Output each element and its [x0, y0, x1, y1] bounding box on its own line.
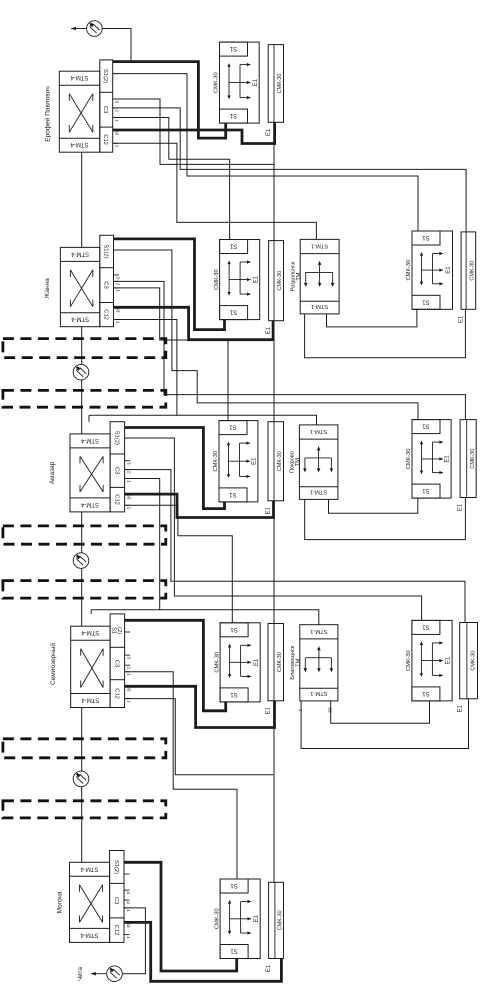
stream arrows [420, 642, 422, 676]
stream arrows [229, 901, 231, 934]
svg-text:S1: S1 [229, 243, 237, 249]
svg-text:S1(2): S1(2) [102, 69, 108, 83]
thick cable B row3 [125, 494, 274, 517]
stream arrows [421, 253, 423, 284]
svg-text:СМК-30: СМК-30 [277, 271, 283, 291]
wire S1(2)p2 row2 to right CMK-30 row3 [114, 250, 419, 420]
wire S1(2) row4 top stub [90, 610, 92, 614]
Ерофей Павлович port column S1(2)/C3/C12 [100, 60, 113, 152]
svg-text:E1: E1 [266, 706, 272, 714]
svg-text:1: 1 [126, 909, 131, 912]
svg-text:E1: E1 [254, 914, 260, 922]
svg-text:СМК-30: СМК-30 [406, 260, 412, 281]
wire TM row2 port63 to right CMK-30 bottom [327, 309, 417, 327]
wire chain row1 to row2 [81, 152, 83, 247]
svg-text:СМК-30: СМК-30 [214, 72, 220, 93]
cable bar CMK-30 row1 [268, 45, 283, 123]
port S1 bottom [412, 687, 440, 701]
svg-text:E1: E1 [457, 704, 463, 712]
port S1 top [219, 421, 247, 435]
svg-text:STM-4: STM-4 [80, 437, 99, 443]
svg-text:E1: E1 [266, 128, 272, 136]
Амазар STM-4 bottom strip [70, 497, 110, 499]
wire C3p2 row3 to right bar row4 [125, 470, 465, 623]
station Жанна multiplexer box [60, 247, 99, 326]
svg-text:E1: E1 [459, 315, 465, 323]
dashed section box 3b [3, 801, 166, 818]
thick cable B row1: C12 port63 to bar [113, 122, 275, 143]
station Ерофей Павлович multiplexer box [59, 71, 100, 152]
port S1 top [220, 42, 248, 56]
svg-text:E1: E1 [266, 506, 272, 514]
wire bar chain row2 to row3 [273, 340, 275, 422]
svg-text:1: 1 [126, 936, 131, 939]
Амазар STM-4 top strip [70, 447, 110, 449]
wire bar chain row1 to row2 [273, 144, 275, 241]
row4 port ticks [125, 619, 131, 621]
svg-text:S1: S1 [230, 691, 238, 697]
svg-text:E1: E1 [266, 964, 272, 972]
svg-text:ТМ: ТМ [296, 272, 302, 280]
TM arrows [305, 657, 331, 659]
svg-text:3: 3 [126, 891, 131, 894]
CMK-30 unit U1 row1 [220, 42, 260, 123]
wire C3p2 row2 to right bar row3 [114, 281, 466, 419]
svg-text:S1: S1 [230, 882, 238, 888]
Могоча cross-connect X symbol [80, 885, 103, 923]
svg-text:S1(2): S1(2) [113, 431, 119, 445]
port S1 top [412, 420, 440, 434]
svg-text:S1: S1 [229, 45, 237, 51]
svg-text:2: 2 [115, 109, 120, 112]
wire S1(2)p2 row1 to right CMK-30 row2 [113, 74, 418, 231]
svg-text:1: 1 [115, 321, 120, 324]
port S1 top [220, 879, 248, 893]
svg-text:1: 1 [127, 700, 132, 703]
svg-text:Могоча: Могоча [57, 891, 64, 913]
right cable bar row3 [460, 420, 476, 498]
svg-text:STM-4: STM-4 [80, 931, 99, 937]
Ерофей Павлович cross-connect X symbol [69, 94, 93, 133]
svg-text:S1: S1 [422, 690, 430, 696]
thick cable A row4 [125, 620, 226, 711]
right cable bar row2 [461, 232, 476, 309]
wire S1(2) row3 top stub [88, 415, 90, 422]
svg-text:1: 1 [115, 289, 120, 292]
cable bar CMK-30 row2 [269, 241, 284, 321]
wire C12p1 row3 to CMK-30 top S1 row4 [125, 505, 233, 623]
TM arrows [306, 271, 333, 273]
dashed section box 1a [3, 339, 166, 358]
svg-text:Семиозерный: Семиозерный [49, 643, 57, 685]
svg-text:S1: S1 [230, 626, 238, 632]
thick cable B row5 [124, 922, 281, 981]
svg-text:СМК-30: СМК-30 [213, 451, 219, 472]
thick cable A row3 [125, 428, 225, 509]
Семиозерный cross-connect X symbol [81, 649, 103, 688]
svg-text:C3: C3 [102, 106, 108, 113]
TM block row4 [300, 625, 338, 701]
svg-text:S1(2): S1(2) [113, 860, 119, 874]
svg-text:S1: S1 [422, 234, 430, 240]
svg-text:STM-4: STM-4 [80, 501, 99, 507]
Амазар port column S1(2)/C3/C12 [110, 422, 125, 512]
svg-text:Чита: Чита [77, 967, 84, 981]
right cable bar row4 [460, 623, 478, 699]
Семиозерный STM-4 bottom strip [71, 693, 110, 695]
svg-text:E1: E1 [266, 326, 272, 334]
stream arrows [421, 442, 423, 474]
svg-text:STM-1: STM-1 [310, 690, 327, 696]
svg-text:S1: S1 [229, 309, 237, 315]
svg-text:ТМ: ТМ [295, 458, 301, 466]
thick cable B row2 [114, 307, 274, 339]
Могоча STM-4 bottom strip [70, 927, 110, 929]
svg-text:(2): (2) [116, 627, 122, 634]
Ерофей Павлович STM-4 bottom strip [59, 137, 100, 139]
svg-text:S1: S1 [229, 112, 237, 118]
svg-text:S1(2): S1(2) [103, 244, 109, 258]
port S1 bottom [220, 109, 248, 123]
station Амазар multiplexer box [70, 434, 110, 512]
right CMK-30 unit row2 [412, 231, 453, 309]
svg-text:S1: S1 [230, 948, 238, 954]
thick cable A row2 [114, 239, 225, 330]
stream arrows [229, 645, 231, 677]
TM arrows [305, 457, 332, 459]
svg-text:2: 2 [127, 667, 132, 670]
svg-text:2: 2 [127, 471, 132, 474]
svg-text:C12: C12 [102, 134, 108, 145]
wire TM row4 port63 to right CMK-30 bottom [331, 701, 430, 723]
svg-text:1: 1 [115, 119, 120, 122]
svg-text:C3: C3 [113, 467, 119, 474]
svg-text:1: 1 [127, 480, 132, 483]
row3 port ticks [125, 427, 131, 429]
port S1 bottom [220, 945, 248, 959]
svg-text:СМК-30: СМК-30 [214, 908, 220, 929]
dashed section box 3a [3, 739, 166, 758]
svg-text:C12: C12 [113, 925, 119, 936]
wire TM row2 port1 to right bar bottom [305, 309, 466, 357]
svg-text:STM-4: STM-4 [70, 141, 89, 147]
svg-text:C12: C12 [113, 688, 119, 699]
port S1 top [220, 240, 248, 254]
svg-text:СМК-30: СМК-30 [469, 261, 475, 281]
svg-text:S1: S1 [422, 298, 430, 304]
port S1 bottom [219, 488, 247, 502]
wire C3p1 row3 to TM row4 [125, 479, 319, 625]
svg-text:STM-4: STM-4 [81, 629, 100, 635]
wire C3p1 row4 to CMK-30 top S1 row5 [125, 672, 237, 879]
svg-text:СМК-30: СМК-30 [277, 74, 283, 94]
svg-text:E1: E1 [445, 455, 451, 463]
Жанна STM-4 top strip [60, 260, 99, 262]
TM row4 port ticks [300, 701, 302, 707]
port S1 top [220, 623, 248, 637]
svg-text:1: 1 [298, 709, 303, 712]
svg-text:S1: S1 [422, 623, 430, 629]
svg-text:E1: E1 [446, 656, 452, 664]
svg-text:Амазар: Амазар [49, 461, 56, 484]
wire C3p3 row1 to bar chain [113, 99, 274, 164]
port S1 bottom [220, 306, 248, 320]
dashed section box 2a [3, 526, 166, 544]
svg-text:Жанна: Жанна [44, 278, 51, 299]
svg-text:C3: C3 [113, 897, 119, 904]
wire arrow to Chita [91, 973, 107, 975]
svg-text:СМК-30: СМК-30 [214, 269, 220, 290]
stream arrows [228, 262, 230, 295]
svg-text:S1: S1 [229, 491, 237, 497]
svg-text:E1: E1 [254, 658, 260, 666]
port S1 bottom [412, 484, 440, 498]
svg-text:Ерофей Павлович: Ерофей Павлович [44, 86, 52, 142]
wire S1(2)p2 row3 to right CMK-30 row4 [125, 438, 422, 620]
Амазар cross-connect X symbol [80, 456, 103, 492]
svg-text:СМК-30: СМК-30 [277, 451, 283, 471]
svg-text:СМК-30: СМК-30 [406, 449, 412, 470]
svg-text:S1: S1 [229, 424, 237, 430]
row5 port ticks [124, 861, 130, 863]
wire C12p1 row4 to bar chain row5 [125, 699, 274, 775]
wire C12p1 row1 to TM row2 [113, 143, 317, 239]
svg-text:3: 3 [127, 462, 132, 465]
station Семиозерный multiplexer box [71, 626, 110, 707]
svg-text:СМК-30: СМК-30 [214, 652, 220, 673]
svg-text:3: 3 [127, 656, 132, 659]
Семиозерный STM-4 top strip [71, 639, 110, 641]
Жанна cross-connect X symbol [70, 270, 92, 307]
cable bar CMK-30 row4 [268, 624, 284, 701]
svg-text:C12: C12 [113, 494, 119, 505]
CMK-30 unit U3 row3 [219, 421, 258, 502]
svg-text:C3: C3 [103, 281, 109, 288]
wire arrow to adjacent section top [71, 28, 87, 30]
svg-text:1: 1 [127, 673, 132, 676]
svg-text:СМК-30: СМК-30 [471, 651, 477, 671]
svg-text:E1: E1 [458, 503, 464, 511]
Жанна STM-4 bottom strip [60, 312, 99, 314]
right CMK-30 unit row4 [412, 620, 452, 701]
svg-text:S1: S1 [110, 627, 116, 634]
wire C3p2 row1 to right bar row2 [113, 108, 466, 232]
svg-text:STM-1: STM-1 [310, 428, 327, 434]
svg-text:C12: C12 [103, 309, 109, 320]
svg-text:E1: E1 [253, 275, 259, 283]
Chita circle [107, 966, 123, 982]
wire chain row4 to row5 [81, 708, 83, 772]
svg-text:СМК-30: СМК-30 [470, 449, 476, 469]
svg-text:STM-4: STM-4 [81, 697, 100, 703]
stream arrows [228, 64, 230, 98]
CMK-30 unit U4 row4 [220, 623, 260, 702]
cable bar CMK-30 row5 [269, 882, 284, 958]
svg-text:STM-4: STM-4 [70, 74, 89, 80]
CMK-30 unit U2 row2 [220, 240, 260, 320]
wire circle to C3p1 row5 [123, 908, 146, 974]
TM block row2 [300, 239, 339, 314]
svg-text:3: 3 [115, 276, 120, 279]
svg-text:2: 2 [126, 901, 131, 904]
svg-text:STM-1: STM-1 [311, 243, 328, 249]
port S1 top [412, 620, 440, 634]
svg-text:63: 63 [328, 707, 333, 713]
TM block row3 [299, 425, 338, 500]
wire bar chain row4 to row5 [273, 728, 275, 883]
wire TM row3 port1 to right bar bottom [305, 498, 466, 540]
cable bar CMK-30 row3 [268, 422, 284, 501]
dashed section box 2b [3, 581, 166, 599]
svg-text:STM-4: STM-4 [70, 250, 89, 256]
wire bar chain row3 to row4 [273, 518, 275, 624]
wire C12p1 row2 to TM row3 [114, 320, 317, 425]
wire TM row4 port1 to right bar bottom [301, 699, 468, 749]
Могоча port column S1(2)/C3/C12 [110, 851, 124, 943]
wire chain row3 to row4 [81, 512, 83, 553]
svg-text:C3: C3 [113, 660, 119, 667]
svg-text:1: 1 [127, 507, 132, 510]
station Могоча multiplexer box [70, 862, 110, 942]
svg-text:1: 1 [115, 145, 120, 148]
wire C3p1 row1 to CMK-30 top S1 row2 [113, 118, 230, 240]
port S1 bottom [412, 295, 440, 309]
svg-text:СМК-30: СМК-30 [277, 652, 283, 672]
svg-text:STM-1: STM-1 [310, 628, 327, 634]
svg-text:3: 3 [115, 100, 120, 103]
wire circle to S1(2) port row1 [102, 29, 131, 62]
Могоча STM-4 top strip [70, 875, 110, 877]
CMK-30 unit U5 row5 [220, 879, 260, 959]
thick cable B row4 [125, 686, 275, 727]
svg-text:СМК-30: СМК-30 [406, 650, 412, 671]
node A approach circle top [87, 21, 103, 37]
svg-text:ТМ: ТМ [295, 658, 301, 666]
svg-text:СМК-30: СМК-30 [278, 910, 284, 930]
svg-text:STM-4: STM-4 [80, 865, 99, 871]
Семиозерный port column S1(2)/C3/C12 [110, 614, 125, 708]
wire C3p1 row2 to CMK-30 top S1 row3 [114, 288, 229, 421]
right CMK-30 unit row3 [412, 420, 451, 499]
svg-text:E1: E1 [252, 457, 258, 465]
row1 port ticks [113, 61, 119, 63]
dashed section box 1b [3, 390, 166, 407]
svg-text:STM-4: STM-4 [70, 316, 89, 322]
svg-text:2: 2 [115, 283, 120, 286]
svg-text:E1: E1 [253, 78, 259, 86]
svg-text:STM-1: STM-1 [310, 489, 327, 495]
wire TM row3 port63 to right CMK-30 bottom [329, 498, 418, 513]
port S1 top [412, 231, 440, 245]
Жанна port column S1(2)/C3/C12 [100, 235, 114, 326]
wire chain row2 to row3 [81, 327, 83, 365]
thick cable A row5 [124, 862, 237, 971]
port S1 bottom [220, 688, 248, 702]
svg-text:E1: E1 [446, 266, 452, 274]
Ерофей Павлович STM-4 top strip [59, 84, 100, 86]
stream arrows [228, 443, 230, 477]
svg-text:S1: S1 [422, 423, 430, 429]
row2 port ticks [114, 238, 120, 240]
svg-text:S1: S1 [422, 487, 430, 493]
svg-text:STM-1: STM-1 [311, 303, 328, 309]
thick cable A row1: S1(2) port1 to S1 bottom [113, 62, 226, 139]
